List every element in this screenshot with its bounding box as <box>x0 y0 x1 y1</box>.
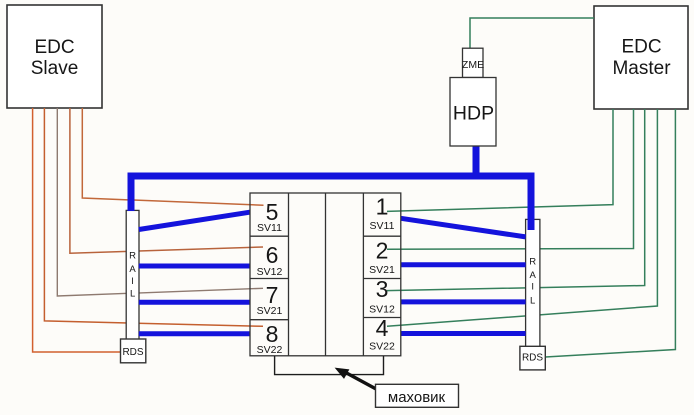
RDS right box <box>520 346 545 370</box>
RAIL left box <box>126 210 139 341</box>
svg-text:EDC: EDC <box>621 37 661 58</box>
svg-text:RDS: RDS <box>122 347 143 358</box>
svg-text:R: R <box>129 251 136 262</box>
wire slave B <box>70 108 263 253</box>
svg-text:6: 6 <box>266 242 279 268</box>
svg-text:L: L <box>130 289 135 300</box>
block inner verticals <box>288 193 290 356</box>
svg-text:HDP: HDP <box>453 103 494 125</box>
svg-text:L: L <box>530 296 535 307</box>
svg-text:I: I <box>131 276 134 287</box>
wire master 2 <box>387 109 634 249</box>
flywheel bracket <box>275 356 384 375</box>
flywheel label box <box>376 384 459 407</box>
wire slave C <box>57 108 263 296</box>
svg-text:4: 4 <box>376 315 389 341</box>
wire slave E to RDS <box>33 108 121 352</box>
svg-text:SV12: SV12 <box>257 266 283 278</box>
blue bar left SV21 <box>139 300 251 305</box>
svg-text:I: I <box>531 282 534 293</box>
blue bar left SV12 <box>139 264 251 269</box>
svg-text:SV11: SV11 <box>370 220 395 232</box>
wire master 3 <box>387 109 645 291</box>
left cell separators <box>250 235 289 237</box>
blue bar right SV22 <box>401 331 526 336</box>
svg-text:SV21: SV21 <box>257 305 283 317</box>
svg-text:RDS: RDS <box>522 353 543 364</box>
svg-text:2: 2 <box>376 238 389 264</box>
svg-text:3: 3 <box>376 276 389 302</box>
ZME box <box>462 48 484 77</box>
svg-text:Master: Master <box>612 58 671 79</box>
svg-text:ZME: ZME <box>462 59 484 71</box>
wire slave D <box>44 108 263 326</box>
EDC Master box <box>594 6 688 109</box>
svg-text:SV11: SV11 <box>257 222 282 234</box>
svg-text:SV21: SV21 <box>369 264 395 276</box>
svg-text:Slave: Slave <box>31 58 79 79</box>
svg-text:EDC: EDC <box>34 37 74 58</box>
svg-text:1: 1 <box>376 194 389 220</box>
wire master 4 <box>387 109 657 326</box>
svg-text:A: A <box>530 270 537 281</box>
arrow to flywheel <box>341 370 377 390</box>
blue bar right SV12 <box>401 299 526 304</box>
svg-text:маховик: маховик <box>388 389 446 406</box>
blue bar left SV22 <box>139 331 251 336</box>
wire master 1 <box>387 109 613 211</box>
blue bus <box>131 176 531 230</box>
RDS left box <box>121 339 146 363</box>
right cell separators <box>363 235 400 237</box>
blue bus HDP stub <box>473 146 480 176</box>
blue bar right SV21 <box>401 262 526 267</box>
svg-text:R: R <box>529 257 536 268</box>
RAIL right box <box>526 219 540 347</box>
svg-text:SV22: SV22 <box>369 341 395 353</box>
wire slave A <box>82 108 263 205</box>
wire master 5 to RDS <box>545 109 675 357</box>
blue diagonal left <box>139 212 250 229</box>
svg-text:A: A <box>129 264 136 275</box>
svg-text:SV12: SV12 <box>369 304 395 316</box>
EDC Slave box <box>7 5 102 108</box>
HDP box <box>450 78 496 147</box>
wire ZME to master <box>470 18 594 49</box>
svg-text:SV22: SV22 <box>257 344 283 356</box>
blue diagonal right <box>401 218 526 237</box>
connector block outer <box>250 193 401 356</box>
